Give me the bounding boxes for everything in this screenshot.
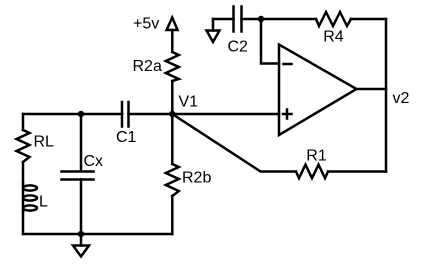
node: feedback junction dot	[258, 16, 264, 22]
node: ground junction dot	[78, 231, 84, 237]
wire: diagonal V1 to R1 row	[172, 114, 296, 172]
wire: R4 to right rail corner	[351, 18, 386, 21]
resistor R4	[316, 12, 351, 26]
resistor R2a	[166, 52, 179, 81]
wire: left branch top corner down to RL	[22, 114, 25, 130]
capacitor Cx	[62, 172, 94, 180]
svg-text:L: L	[39, 194, 48, 211]
wire: right vertical rail	[385, 19, 388, 172]
node: Cx top junction dot	[78, 111, 84, 117]
wire: op-amp output	[357, 88, 387, 91]
wire: C1 right plate to node V1	[129, 113, 173, 116]
wire: top of tank loop, left corner to C1 left plate	[23, 113, 122, 116]
wire: Cx branch bottom	[80, 180, 83, 235]
inductor L	[23, 184, 37, 212]
capacitor C2	[234, 7, 242, 32]
svg-text:+5v: +5v	[133, 16, 159, 33]
resistor R1	[296, 165, 328, 179]
svg-text:Cx: Cx	[84, 153, 104, 170]
op-amp U1	[279, 45, 357, 136]
svg-text:C1: C1	[116, 129, 137, 146]
resistor R2b	[166, 114, 179, 234]
svg-text:R2a: R2a	[133, 58, 162, 75]
ground (bottom)	[73, 234, 89, 257]
wire: R2a to node V1	[171, 81, 174, 114]
wire: R1 to right rail	[328, 170, 386, 173]
wire: junction to R4	[261, 18, 316, 21]
ground (C2)	[207, 19, 220, 42]
power +5v arrow	[167, 18, 178, 53]
svg-text:v2: v2	[393, 90, 410, 107]
wire: bottom ground rail	[23, 233, 172, 236]
svg-text:RL: RL	[34, 134, 55, 151]
svg-text:R4: R4	[323, 29, 344, 46]
wire: ground to C2 left plate	[213, 18, 234, 21]
node V1 junction dot	[169, 111, 175, 117]
svg-text:C2: C2	[228, 39, 249, 56]
svg-text:R1: R1	[306, 148, 327, 165]
wire: RL to L	[22, 162, 25, 184]
wire: Cx branch top	[80, 114, 83, 171]
wire: V1 to op-amp + input	[172, 113, 279, 116]
wire: junction down to op-amp minus input	[261, 19, 279, 64]
wire: C2 right plate to junction	[242, 18, 262, 21]
svg-text:V1: V1	[179, 94, 199, 111]
svg-text:R2b: R2b	[182, 170, 211, 187]
wire: L to bottom rail	[22, 212, 25, 234]
capacitor C1	[122, 102, 129, 127]
resistor RL	[17, 130, 30, 162]
